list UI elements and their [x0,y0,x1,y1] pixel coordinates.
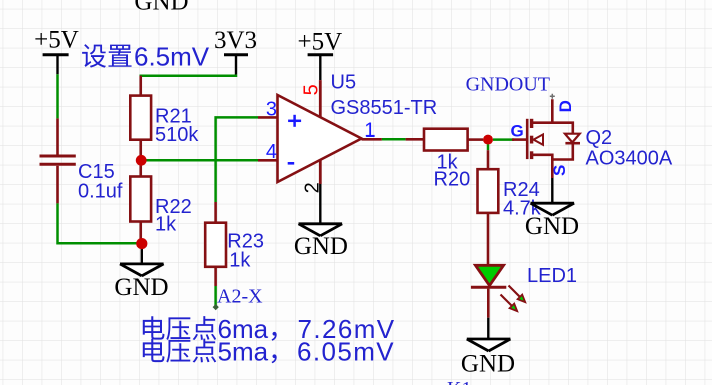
ground below op-amp [294,184,348,260]
resistor R22 [130,160,151,243]
svg-text:1k: 1k [229,250,251,272]
ground below LED1 [461,318,515,378]
label R21 510k [155,106,199,147]
LED LED1 [471,265,525,317]
resistor R20 [406,129,484,151]
annotation text 设置6.5mV [82,42,210,72]
svg-text:1: 1 [364,120,375,142]
svg-text:GND: GND [134,0,188,16]
svg-text:0.1uf: 0.1uf [78,181,123,203]
op-amp minus symbol [288,162,295,165]
label R24 4.7k [503,179,542,220]
power GND (cut off at top) [134,0,188,16]
resistor R24 [478,144,499,265]
label R23 1k [227,231,264,272]
junction R21/R22 [136,155,147,166]
svg-text:AO3400A: AO3400A [586,148,673,170]
svg-text:510k: 510k [155,124,199,146]
label U5 GS8551-TR [331,72,438,120]
label Q2 AO3400A [586,127,673,170]
resistor R21 [130,76,151,161]
ground below R22 [114,244,168,301]
op-amp pin 5 [300,80,322,117]
svg-text:S: S [550,165,569,176]
op-amp pin 1 stub [362,120,382,142]
svg-text:Q2: Q2 [586,127,613,149]
label R22 1k [155,196,192,236]
wire divider node to op-amp pin 4 [141,159,258,162]
pin name D [556,100,575,112]
power +5V (left) [34,27,79,75]
junction R22/C15/GND [136,238,147,249]
svg-text:5: 5 [300,84,322,95]
pin name G [511,121,524,140]
capacitor C15 [40,118,76,203]
svg-text:K1: K1 [447,378,471,385]
power +5V (op-amp) [297,29,342,81]
svg-text:LED1: LED1 [527,265,577,287]
op-amp U5 body [278,95,362,182]
label C15 value [78,161,123,203]
svg-text:GNDOUT: GNDOUT [466,73,550,95]
wire C15 to R22 bottom node [58,203,142,243]
svg-text:GND: GND [294,233,348,260]
transistor Q2 [512,99,580,178]
svg-text:GS8551-TR: GS8551-TR [331,97,438,119]
pin name S [550,165,569,176]
svg-text:G: G [511,121,524,140]
junction gate node [483,135,493,145]
resistor R23 [205,202,226,286]
power 3V3 [214,27,257,74]
svg-text:GND: GND [114,274,168,301]
ground below Q2 source [525,178,579,240]
op-amp plus symbol [288,115,301,127]
annotation line 2 [143,337,395,367]
svg-text:3: 3 [266,99,277,121]
wire op-amp output [382,138,406,141]
wire pin3 net [216,117,258,202]
svg-text:4: 4 [266,141,277,163]
label R20 1k [434,152,471,191]
svg-text:GND: GND [525,213,579,240]
svg-text:+5V: +5V [297,29,342,56]
wire +5V to C15 [56,74,59,118]
svg-text:+5V: +5V [34,27,79,54]
op-amp pin 3 stub [258,99,278,121]
op-amp pin 4 stub [258,141,278,163]
net label GNDOUT [466,73,550,95]
text cut off at bottom [447,378,471,390]
net label A2-X [217,285,263,307]
svg-text:D: D [556,100,575,112]
svg-text:5ma: 5ma [218,337,269,367]
wire 3V3 to R21 [141,75,236,96]
wire to A2-X [213,286,219,310]
svg-text:U5: U5 [331,72,357,94]
svg-text:6.5mV: 6.5mV [134,42,210,72]
label LED1 [527,265,577,287]
wire to Q2 gate [493,138,514,141]
op-amp pin 2 [302,160,324,194]
pin marker drain [550,94,555,99]
svg-text:1k: 1k [155,214,177,236]
svg-text:A2-X: A2-X [217,285,263,307]
svg-text:3V3: 3V3 [214,27,257,54]
annotation line 1 [143,314,396,344]
svg-text:6.05mV: 6.05mV [297,337,395,367]
svg-text:R20: R20 [434,168,471,190]
svg-text:GND: GND [461,351,515,378]
